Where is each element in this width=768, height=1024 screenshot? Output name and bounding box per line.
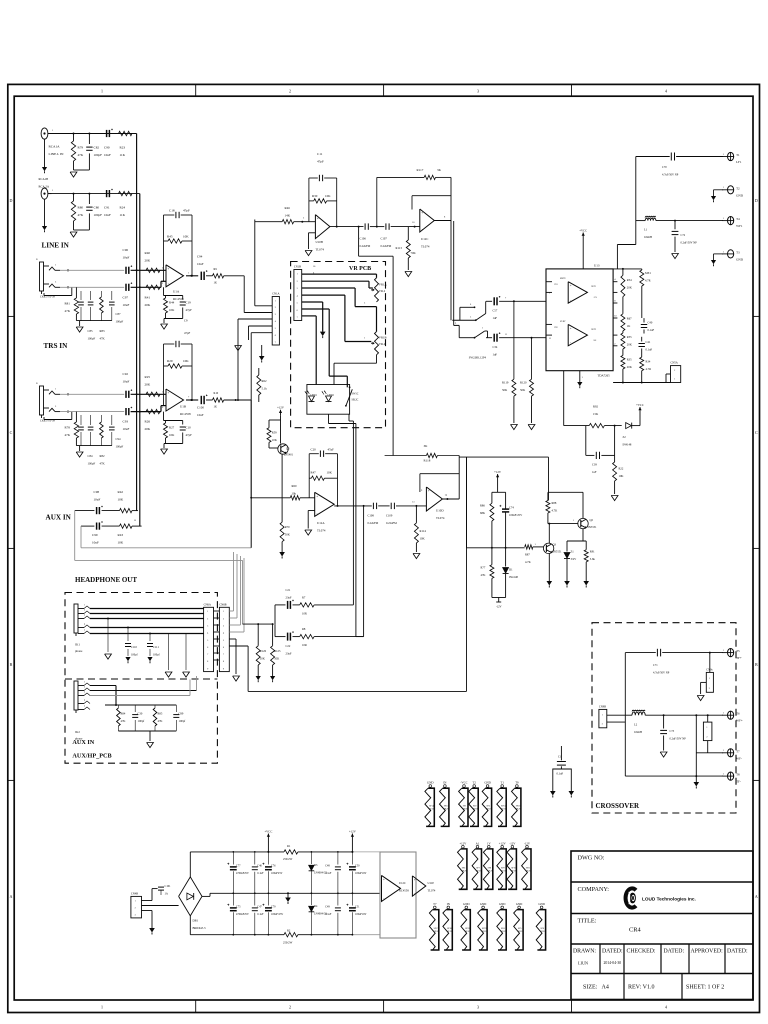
svg-text:C79: C79 xyxy=(271,906,276,909)
svg-text:3K: 3K xyxy=(424,444,429,448)
op-amp U1B xyxy=(166,389,184,411)
resistor R81 xyxy=(75,287,77,298)
spark gap SP7 row2 xyxy=(476,845,479,848)
svg-text:+VCC: +VCC xyxy=(264,829,272,833)
svg-text:C72: C72 xyxy=(681,234,686,237)
svg-text:47K: 47K xyxy=(481,573,487,577)
svg-text:4.7R: 4.7R xyxy=(646,367,652,371)
svg-text:2N5551: 2N5551 xyxy=(588,526,598,529)
svg-text:C93: C93 xyxy=(123,420,129,424)
svg-text:T7: T7 xyxy=(433,902,437,906)
diode D1 xyxy=(505,548,507,567)
svg-text:U12C: U12C xyxy=(399,881,406,885)
op-amp U12A xyxy=(315,492,335,516)
svg-text:CN1A: CN1A xyxy=(272,293,279,296)
svg-text:R26: R26 xyxy=(145,420,151,424)
spark gap SP1 row1 xyxy=(463,785,466,788)
svg-text:100pF: 100pF xyxy=(94,213,103,217)
zone tick marks left/right xyxy=(8,315,14,317)
svg-text:10K: 10K xyxy=(420,537,426,541)
svg-text:68K: 68K xyxy=(480,511,486,515)
svg-text:14K: 14K xyxy=(285,214,291,218)
svg-text:2: 2 xyxy=(297,281,298,283)
svg-text:SP11: SP11 xyxy=(526,867,531,869)
svg-text:C91: C91 xyxy=(104,206,110,210)
resistor R42 xyxy=(102,510,120,512)
svg-text:47K: 47K xyxy=(78,213,84,217)
svg-text:C109: C109 xyxy=(386,514,393,518)
svg-text:47pF: 47pF xyxy=(183,209,190,213)
svg-text:100pf: 100pf xyxy=(138,719,145,723)
svg-text:10K: 10K xyxy=(183,359,189,363)
wire bias bottom rail xyxy=(491,578,493,597)
svg-text:T6: T6 xyxy=(736,712,740,716)
capacitor C107 xyxy=(385,223,387,229)
wire U1A feedback right xyxy=(191,215,193,276)
resistor R7 xyxy=(293,604,300,606)
svg-text:ME1: ME1 xyxy=(645,271,651,275)
resistor R26 xyxy=(146,409,160,413)
svg-text:IN2: IN2 xyxy=(555,327,558,329)
svg-text:-: - xyxy=(422,227,423,231)
svg-text:1: 1 xyxy=(723,773,725,776)
svg-text:9: 9 xyxy=(207,668,208,670)
power +12V bias xyxy=(497,474,499,480)
svg-text:0.22uFM: 0.22uFM xyxy=(368,521,379,525)
svg-text:T3: T3 xyxy=(736,250,740,254)
svg-text:R88: R88 xyxy=(552,501,557,505)
wire CN6A-CN6B links xyxy=(214,610,220,612)
capacitor C82 xyxy=(88,134,90,145)
svg-text:+: + xyxy=(570,284,572,288)
feedback resistor R29 xyxy=(164,365,169,367)
svg-text:SP6: SP6 xyxy=(540,928,544,930)
svg-text:3: 3 xyxy=(207,626,209,628)
capacitor C97 xyxy=(125,284,127,291)
svg-text:10k: 10k xyxy=(292,492,297,496)
ground C1 left xyxy=(550,791,556,796)
svg-text:R41: R41 xyxy=(145,296,151,300)
svg-text:10: 10 xyxy=(412,221,415,224)
wire signal to SW2 rows xyxy=(452,319,476,321)
svg-text:U1A: U1A xyxy=(173,290,180,294)
svg-text:GND: GND xyxy=(736,193,744,197)
svg-text:GND: GND xyxy=(499,902,506,906)
svg-text:C: C xyxy=(755,430,758,435)
svg-text:+: + xyxy=(168,267,170,271)
wire R92 junction down xyxy=(614,425,616,427)
svg-text:0.1uF: 0.1uF xyxy=(648,328,655,332)
capacitor C46 xyxy=(254,852,256,865)
feedback resistor R30 xyxy=(309,200,314,202)
capacitor C84 xyxy=(90,415,92,425)
capacitor C106 xyxy=(364,223,366,229)
resistor R67 xyxy=(621,314,625,331)
svg-text:APPROVED:: APPROVED: xyxy=(691,949,724,955)
resistor R27 and capacitor C10 to ground xyxy=(163,412,165,421)
connector JK2 phone xyxy=(74,681,78,710)
svg-text:SP5: SP5 xyxy=(518,928,522,930)
svg-text:10K: 10K xyxy=(169,308,175,312)
svg-text:R46: R46 xyxy=(285,206,291,210)
wire bias box left xyxy=(466,457,468,548)
spark gap SP10 row2 xyxy=(511,845,514,848)
svg-text:+: + xyxy=(428,489,430,493)
svg-text:C34: C34 xyxy=(493,345,498,349)
svg-text:0.1uF: 0.1uF xyxy=(325,872,332,875)
svg-text:1: 1 xyxy=(602,715,603,717)
svg-text:10R: 10R xyxy=(302,612,307,616)
resistor R91 xyxy=(585,541,587,550)
wire U10B output row xyxy=(330,226,364,228)
svg-text:4: 4 xyxy=(297,295,299,297)
spark gap SP6 row3 xyxy=(540,906,543,909)
svg-text:1: 1 xyxy=(364,337,366,340)
svg-text:-12V: -12V xyxy=(509,841,516,845)
svg-text:R62: R62 xyxy=(262,379,268,383)
svg-text:D3: D3 xyxy=(314,864,318,867)
svg-text:47K: 47K xyxy=(100,337,106,341)
svg-text:10K: 10K xyxy=(118,541,124,545)
terminal T1 xyxy=(728,152,734,160)
op-amp U10D xyxy=(426,487,442,511)
wire CN1B pin6 xyxy=(302,308,330,310)
svg-text:1: 1 xyxy=(55,388,57,391)
svg-text:VR1A: VR1A xyxy=(379,282,388,286)
capacitor C47 xyxy=(254,893,256,905)
svg-text:3: 3 xyxy=(275,314,277,316)
capacitor C101 xyxy=(158,886,164,888)
svg-text:SW2.BK.12P4: SW2.BK.12P4 xyxy=(469,356,487,360)
wire VR1B bottom xyxy=(376,355,378,363)
svg-text:DB1: DB1 xyxy=(193,919,199,923)
transistor Q5 2N5401 xyxy=(278,444,288,454)
resistor R87 xyxy=(525,545,533,549)
svg-text:4.7uF/50V NP: 4.7uF/50V NP xyxy=(653,672,670,675)
wire into CN1A pin1 xyxy=(254,220,256,306)
wire Q5 emitter down xyxy=(281,454,283,522)
resistor R84 xyxy=(117,705,119,708)
svg-text:100uF25V: 100uF25V xyxy=(271,872,283,875)
wire line bus R xyxy=(139,194,141,526)
title block outline xyxy=(571,851,753,1000)
svg-text:U11E: U11E xyxy=(428,881,435,885)
wire T7 row xyxy=(696,752,723,754)
svg-text:IN1: IN1 xyxy=(555,284,558,286)
wire AUX to mixer xyxy=(250,498,252,548)
wire Q5 base xyxy=(269,447,278,449)
svg-text:3.9V: 3.9V xyxy=(571,557,578,561)
power +12V rail xyxy=(351,834,353,840)
svg-text:1: 1 xyxy=(55,264,57,267)
svg-text:R120: R120 xyxy=(520,381,527,385)
wire +12V to transistor xyxy=(280,416,282,420)
spark gap SP2 row1 xyxy=(473,785,476,788)
svg-text:3: 3 xyxy=(477,89,479,94)
svg-text:10uF: 10uF xyxy=(123,256,130,260)
connector CN1B xyxy=(294,270,302,321)
feedback loop U1B capacitor xyxy=(163,344,165,406)
svg-text:CROSSOVER: CROSSOVER xyxy=(596,802,641,810)
svg-text:C87: C87 xyxy=(116,312,122,316)
svg-text:2: 2 xyxy=(706,736,707,738)
svg-text:WF+: WF+ xyxy=(736,719,743,723)
svg-text:9: 9 xyxy=(223,668,224,670)
resistor R88 xyxy=(547,492,549,500)
svg-text:TL074: TL074 xyxy=(316,248,325,252)
connector RCA2A xyxy=(41,188,48,199)
svg-text:R44: R44 xyxy=(169,301,175,305)
wire mixer input xyxy=(251,497,290,499)
svg-text:R117: R117 xyxy=(417,168,424,172)
capacitor C85 xyxy=(80,291,82,300)
svg-text:9: 9 xyxy=(421,489,423,492)
ground U1A feedback xyxy=(163,319,165,324)
svg-text:6: 6 xyxy=(207,647,209,649)
wire U12C output xyxy=(434,220,451,222)
wire LC node vertical xyxy=(635,157,637,245)
wire CN6B fanout right xyxy=(229,610,233,612)
svg-text:TL074: TL074 xyxy=(436,516,445,520)
ground C73 xyxy=(660,752,667,757)
ground CN6B xyxy=(229,638,236,640)
svg-text:100pF: 100pF xyxy=(94,153,103,157)
svg-text:R22: R22 xyxy=(619,467,624,471)
svg-text:C89: C89 xyxy=(179,712,184,716)
svg-text:CN1B: CN1B xyxy=(294,266,301,269)
spark gap SP15 row1 xyxy=(501,785,504,788)
wire C70 to T1 xyxy=(676,156,723,158)
capacitor C94 xyxy=(200,272,202,280)
svg-text:AUX IN: AUX IN xyxy=(46,514,72,522)
svg-text:100pF: 100pF xyxy=(116,320,124,324)
wire AUX row1 xyxy=(75,510,95,512)
wire bias top rail xyxy=(492,491,506,493)
svg-text:R47: R47 xyxy=(311,471,317,475)
svg-text:CN4B: CN4B xyxy=(131,892,138,895)
wire bottom net to CN5A xyxy=(613,382,670,384)
svg-text:1: 1 xyxy=(723,250,725,253)
svg-text:47K: 47K xyxy=(158,719,164,723)
IC U13 box xyxy=(546,269,613,371)
wire hp return rail xyxy=(243,623,273,625)
svg-text:B: B xyxy=(10,662,13,667)
connector TRS jack 1 xyxy=(40,262,44,291)
svg-text:-: - xyxy=(168,406,169,410)
svg-text:C47: C47 xyxy=(257,906,262,909)
svg-text:R45: R45 xyxy=(167,234,173,238)
svg-text:7: 7 xyxy=(223,654,225,656)
dashed divider xyxy=(65,678,217,680)
diode D4 xyxy=(310,893,312,905)
svg-text:-: - xyxy=(168,282,169,286)
svg-text:10K: 10K xyxy=(325,194,331,198)
diode Z2 xyxy=(626,423,632,429)
wire TRS1 ring row b xyxy=(131,286,161,288)
svg-text:10uF: 10uF xyxy=(104,153,111,157)
wire U12A output row xyxy=(334,505,372,507)
svg-text:100uF16V: 100uF16V xyxy=(355,913,367,916)
svg-text:SP7: SP7 xyxy=(476,867,480,869)
svg-text:LED2: LED2 xyxy=(328,394,335,397)
switch SW1C xyxy=(346,389,352,406)
capacitor C89 xyxy=(175,705,177,712)
svg-text:0.22uFM: 0.22uFM xyxy=(360,244,371,248)
svg-text:47pF: 47pF xyxy=(186,433,193,437)
svg-text:R77: R77 xyxy=(481,566,486,570)
resistor R113 xyxy=(407,227,409,240)
terminal T2 xyxy=(728,186,734,194)
connector CN9C xyxy=(709,653,711,673)
resistor R44 and capacitor C19 to ground xyxy=(163,287,165,295)
svg-text:R113: R113 xyxy=(396,246,403,250)
capacitor C49 xyxy=(337,893,339,905)
svg-text:5: 5 xyxy=(84,705,86,707)
svg-text:C82: C82 xyxy=(94,146,100,150)
svg-text:U1B: U1B xyxy=(180,405,186,409)
svg-text:CN9c: CN9c xyxy=(706,668,713,671)
svg-text:C51: C51 xyxy=(355,906,360,909)
svg-text:10uF: 10uF xyxy=(123,427,130,431)
svg-text:10K: 10K xyxy=(260,657,266,661)
svg-text:R119: R119 xyxy=(502,381,509,385)
svg-text:C84: C84 xyxy=(88,454,94,458)
svg-text:2: 2 xyxy=(614,342,616,345)
wire crossover vertical b xyxy=(695,715,697,776)
spark gap SP6 row2 xyxy=(462,845,465,848)
power +VCC rail xyxy=(267,834,269,840)
svg-text:3: 3 xyxy=(84,691,86,693)
svg-text:C10: C10 xyxy=(186,426,192,430)
resistor R8 xyxy=(293,636,300,638)
svg-text:IN4148: IN4148 xyxy=(623,443,632,447)
ground stub near CN1A xyxy=(235,346,242,351)
svg-text:RCA1B: RCA1B xyxy=(39,177,49,181)
svg-text:OUT2: OUT2 xyxy=(591,329,596,331)
wire U1B output xyxy=(186,399,198,401)
svg-text:R43: R43 xyxy=(118,533,124,537)
svg-text:Q2: Q2 xyxy=(590,519,594,522)
feedback loop U1A: capacitor C18 xyxy=(163,215,165,281)
wire CN4B to bridge xyxy=(142,900,153,902)
svg-text:1: 1 xyxy=(723,217,725,220)
wire U10D feedback vertical xyxy=(458,456,460,500)
svg-text:20K: 20K xyxy=(627,343,633,347)
svg-text:1: 1 xyxy=(84,681,85,683)
svg-text:R42: R42 xyxy=(118,490,124,494)
wire headphone verticals xyxy=(348,414,350,421)
svg-text:3: 3 xyxy=(364,302,366,305)
svg-text:C100: C100 xyxy=(197,406,204,410)
capacitor C94b xyxy=(111,415,113,425)
resistor R10 xyxy=(206,399,213,401)
svg-text:R35: R35 xyxy=(627,358,632,362)
svg-text:T2: T2 xyxy=(736,186,740,190)
connector CN5A xyxy=(671,366,681,383)
svg-text:-: - xyxy=(414,891,415,895)
feedback resistor R47 xyxy=(309,477,311,479)
svg-text:4700uF25V: 4700uF25V xyxy=(236,913,249,916)
LED1 xyxy=(309,396,315,402)
connector CN6A xyxy=(204,607,214,671)
svg-text:C97: C97 xyxy=(123,296,129,300)
svg-text:D1: D1 xyxy=(509,568,513,572)
svg-text:11K: 11K xyxy=(120,213,126,217)
wire U1B output to CN1A xyxy=(224,399,252,401)
svg-text:R27: R27 xyxy=(169,426,175,430)
svg-text:10uF: 10uF xyxy=(197,262,204,266)
svg-text:C19: C19 xyxy=(186,301,192,305)
wire R46 to opamp xyxy=(294,221,316,223)
capacitor C88 xyxy=(80,415,82,425)
wire Q3 collector xyxy=(548,524,550,544)
svg-text:7: 7 xyxy=(275,342,277,344)
wire U12A feedback right xyxy=(337,454,339,506)
svg-text:10uF: 10uF xyxy=(104,213,111,217)
svg-text:5: 5 xyxy=(297,303,299,305)
capacitor C108 xyxy=(372,503,374,509)
svg-text:C22: C22 xyxy=(286,644,291,648)
spark gap SP13 row1 xyxy=(444,785,447,788)
ground R125 xyxy=(272,665,274,676)
svg-text:4.7uF/50V NP: 4.7uF/50V NP xyxy=(662,174,679,177)
spark gap SP9 row2 xyxy=(501,845,504,848)
dashed box CROSSOVER xyxy=(592,623,736,813)
IC U12 box xyxy=(380,852,416,938)
spark gap SP22 row3 xyxy=(465,906,468,909)
svg-text:0.22uFM: 0.22uFM xyxy=(386,521,397,525)
svg-text:5.1k: 5.1k xyxy=(262,387,268,391)
svg-text:10K: 10K xyxy=(183,234,189,238)
svg-text:10K: 10K xyxy=(272,438,278,442)
feedback capacitor C20 xyxy=(308,454,310,498)
wire C107 to U12C xyxy=(391,226,420,228)
svg-text:100uF/25V: 100uF/25V xyxy=(509,513,523,517)
svg-text:10uF: 10uF xyxy=(197,413,204,417)
wire C71 row xyxy=(625,652,656,654)
wire U12C feedback vertical xyxy=(450,177,452,320)
svg-text:TL074: TL074 xyxy=(317,529,326,533)
svg-text:4: 4 xyxy=(665,89,667,94)
svg-text:3K: 3K xyxy=(437,168,442,172)
svg-text:0.6mH: 0.6mH xyxy=(634,730,642,734)
wire into CN1A pin5 xyxy=(250,333,252,548)
svg-text:LED1: LED1 xyxy=(311,394,318,397)
ground TRS2 rail xyxy=(79,446,81,451)
svg-text:C98: C98 xyxy=(94,490,100,494)
svg-text:0.1uF: 0.1uF xyxy=(257,913,264,916)
svg-text:-12V: -12V xyxy=(524,841,531,845)
svg-text:R91: R91 xyxy=(590,550,595,554)
svg-text:C50: C50 xyxy=(355,865,360,868)
svg-text:C101: C101 xyxy=(165,885,172,888)
wire U1A output xyxy=(186,275,198,277)
svg-text:R118: R118 xyxy=(424,459,431,463)
wire base node xyxy=(548,523,578,525)
capacitor C86 xyxy=(90,291,92,300)
pin stubs U13 right xyxy=(613,281,617,283)
svg-text:JK2: JK2 xyxy=(75,730,80,734)
svg-text:DATED:: DATED: xyxy=(664,949,685,955)
capacitor C91 xyxy=(106,190,108,197)
wire hp row2 xyxy=(275,636,286,638)
svg-text:1: 1 xyxy=(723,649,725,652)
svg-text:U12C: U12C xyxy=(421,237,428,241)
svg-text:5: 5 xyxy=(207,640,209,642)
svg-text:20K: 20K xyxy=(627,286,633,290)
op-amp U11E xyxy=(412,876,425,896)
svg-text:250/2W: 250/2W xyxy=(283,857,293,861)
